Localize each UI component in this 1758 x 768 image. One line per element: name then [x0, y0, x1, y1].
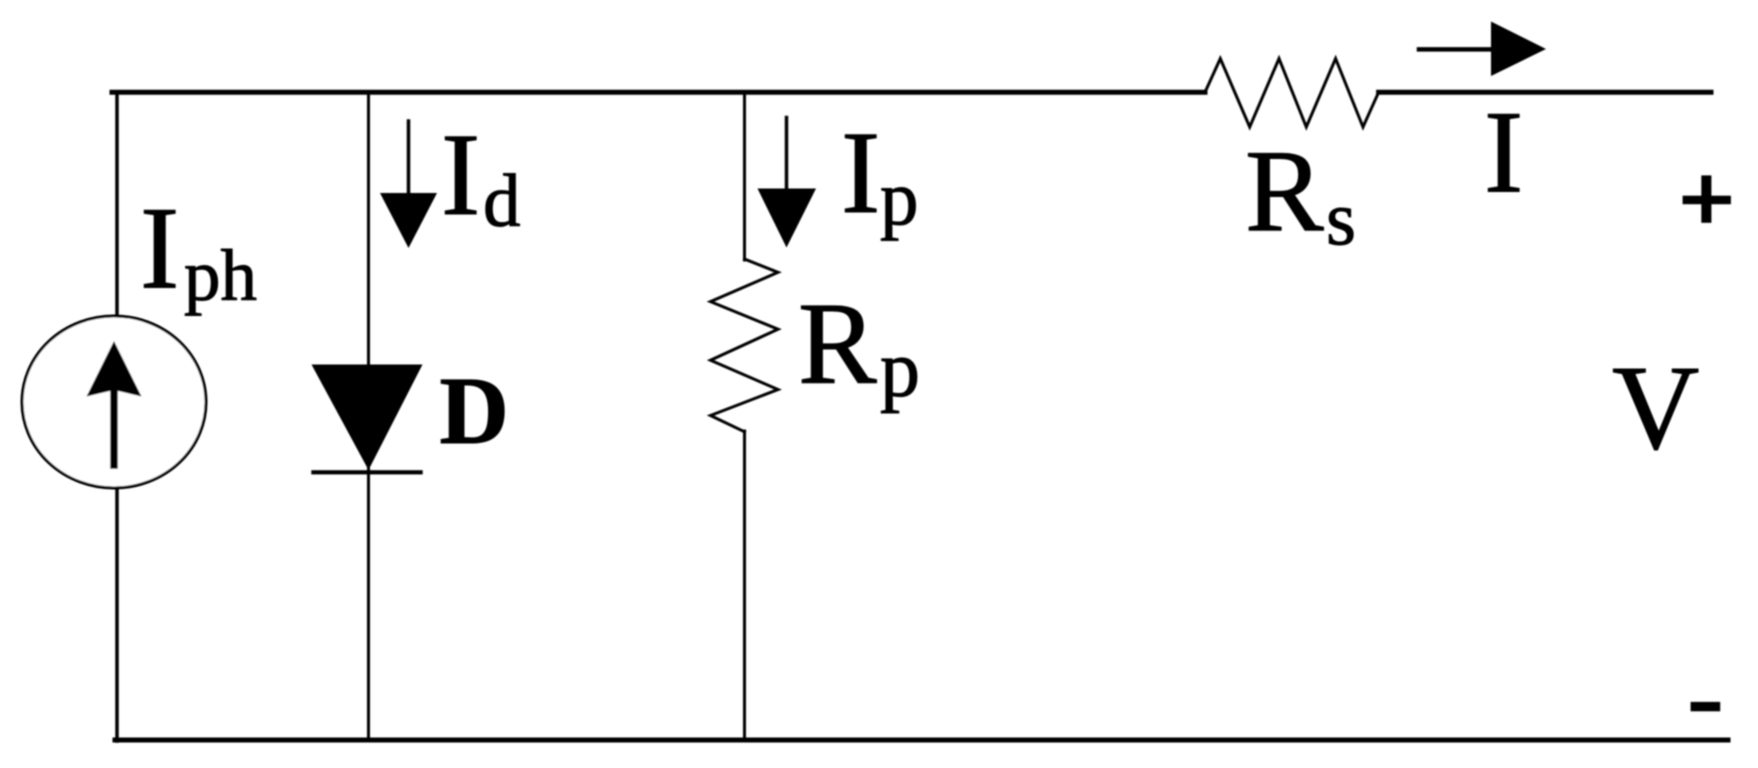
- svg-text:R: R: [798, 278, 877, 409]
- svg-text:R: R: [1245, 126, 1324, 257]
- svg-text:I: I: [441, 109, 480, 240]
- svg-text:ph: ph: [184, 235, 257, 316]
- svg-text:s: s: [1326, 175, 1356, 261]
- svg-text:I: I: [841, 107, 880, 238]
- svg-text:I: I: [1484, 87, 1523, 218]
- svg-text:V: V: [1612, 341, 1699, 475]
- svg-text:d: d: [483, 160, 521, 243]
- svg-text:D: D: [440, 357, 509, 464]
- svg-text:p: p: [880, 326, 920, 414]
- svg-text:I: I: [140, 182, 179, 313]
- svg-text:p: p: [880, 155, 919, 241]
